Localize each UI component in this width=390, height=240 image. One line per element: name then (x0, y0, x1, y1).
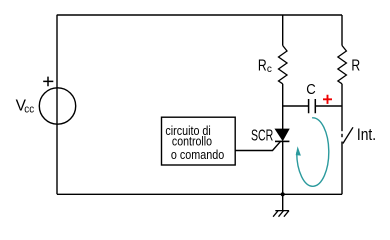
wire left rail (56, 15, 58, 194)
svg-text:C: C (306, 81, 316, 98)
SCR anode triangle (275, 129, 289, 140)
wire SCR cathode to bottom (282, 141, 284, 194)
svg-text:R: R (351, 57, 360, 74)
svg-text:cc: cc (24, 103, 34, 115)
ground symbol (273, 211, 289, 217)
wire middle branch upper (282, 15, 284, 46)
resistor R zigzag (338, 46, 347, 84)
capacitor C1 plates (309, 99, 316, 113)
wire right branch lower (341, 142, 343, 195)
wire right branch upper (341, 15, 343, 46)
voltage source V1 circle (39, 88, 75, 124)
svg-text:SCR: SCR (251, 128, 273, 145)
control box rectangle (162, 117, 236, 165)
wire right branch below R (341, 84, 343, 131)
current loop arc (teal) (297, 118, 329, 186)
svg-text:c: c (267, 64, 272, 75)
capacitor plus sign (red) (323, 95, 332, 104)
node junction dot (281, 192, 285, 196)
resistor Rc zigzag (279, 46, 288, 84)
SCR cathode bar (275, 140, 289, 142)
switch Int contact dash (341, 134, 343, 137)
capacitor C1 left lead (283, 105, 309, 107)
svg-text:R: R (258, 57, 267, 74)
wire top rail (57, 14, 342, 16)
wire bottom rail (57, 193, 342, 195)
svg-text:o comando: o comando (171, 148, 224, 162)
SCR gate wire (235, 141, 280, 150)
svg-text:Int.: Int. (357, 126, 376, 144)
current loop arrowhead (296, 146, 301, 155)
capacitor C1 right lead (315, 105, 342, 107)
wire middle branch below Rc (282, 84, 284, 129)
plus sign of source (43, 77, 53, 87)
svg-text:controllo: controllo (172, 135, 212, 149)
switch Int blade (343, 127, 353, 143)
ground stub wire (282, 194, 284, 210)
